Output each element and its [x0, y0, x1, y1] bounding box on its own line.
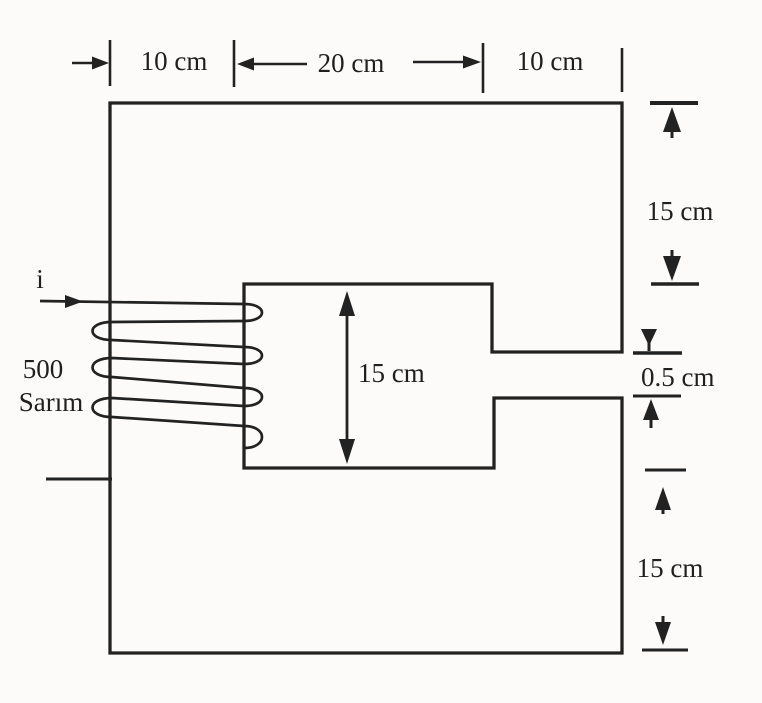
down arrow above gap-top bar	[641, 329, 657, 351]
coil bottom terminal wire	[46, 478, 112, 481]
up arrow under top bar	[663, 107, 681, 138]
svg-text:20 cm: 20 cm	[318, 48, 385, 78]
current arrowhead on input wire	[65, 295, 83, 308]
tick mark at x=234 (top)	[233, 40, 236, 87]
dimension bar (right, window bottom level)	[645, 469, 686, 472]
svg-text:i: i	[36, 264, 44, 294]
dimension bar (gap bottom)	[633, 395, 681, 398]
svg-text:0.5 cm: 0.5 cm	[641, 362, 715, 392]
svg-text:15 cm: 15 cm	[647, 196, 714, 226]
svg-text:10 cm: 10 cm	[141, 46, 208, 76]
svg-text:500: 500	[23, 354, 64, 384]
down arrow above window-top bar	[663, 250, 681, 281]
dimension bar (right, top edge level)	[650, 101, 698, 105]
svg-text:15 cm: 15 cm	[358, 358, 425, 388]
svg-text:15 cm: 15 cm	[637, 553, 704, 583]
up arrow under gap-bottom bar	[643, 399, 659, 428]
magnetic core outline with air gap	[110, 103, 622, 653]
dimension arrow (20 cm left head)	[237, 58, 307, 71]
tick mark at x=110 (top)	[109, 40, 112, 86]
svg-text:Sarım: Sarım	[19, 387, 84, 417]
dimension bar (right, bottom edge level)	[642, 649, 688, 652]
tick mark at x=622 (top)	[621, 48, 624, 92]
dimension arrow (left, 10 cm top)	[72, 57, 109, 70]
up arrow under window-bottom bar	[655, 487, 671, 514]
dimension bar (right, window top level)	[651, 282, 699, 286]
tick mark at x=483 (top)	[482, 43, 485, 93]
dimension bar (gap top)	[633, 351, 682, 355]
down arrow above bottom bar	[655, 616, 671, 645]
vertical double arrow (15 cm center window)	[339, 291, 355, 464]
dimension arrow (20 cm right head)	[413, 56, 481, 69]
svg-text:10 cm: 10 cm	[517, 46, 584, 76]
coil winding (500 turns) on left limb	[40, 301, 262, 448]
